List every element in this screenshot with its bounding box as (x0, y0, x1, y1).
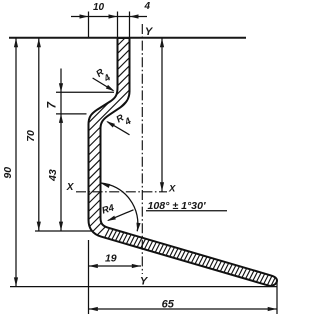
svg-text:X: X (66, 182, 75, 193)
R4 jog leader (107, 122, 129, 135)
ext line x=117.5 (117, 12, 119, 38)
svg-text:108° ± 1°30′: 108° ± 1°30′ (148, 201, 207, 212)
label R4 jog (114, 112, 133, 128)
profile cross-section outline (89, 38, 278, 286)
dim line 43 and 7 (60, 69, 62, 231)
dim 90 (15, 38, 17, 287)
top surface line (9, 37, 246, 39)
7 lower tick line (56, 113, 87, 115)
svg-text:90: 90 (2, 167, 14, 179)
svg-text:19: 19 (105, 252, 117, 264)
7 upper tick line (56, 91, 114, 93)
ext line x=129.5 (129, 12, 131, 38)
svg-text:10: 10 (93, 2, 105, 13)
R4 bend leader (108, 210, 133, 221)
angle arc 108deg (101, 183, 138, 231)
dim 65 (89, 308, 278, 310)
R4 upper leader (93, 78, 114, 91)
section hatching (89, 38, 276, 286)
label R4 upper (94, 67, 113, 85)
angle text underline (146, 210, 227, 212)
dim 70 (38, 38, 40, 231)
dim 19 (89, 265, 142, 267)
X axis centerline (76, 191, 167, 193)
svg-text:65: 65 (162, 298, 175, 310)
ext line bend y=227 (35, 230, 92, 232)
dim line top-to-X-axis (161, 38, 163, 192)
ext line x=88.5 bottom (88, 240, 90, 314)
Y axis centerline (141, 24, 143, 274)
svg-text:4: 4 (144, 1, 151, 12)
ext line x=88.5 (88, 12, 90, 38)
dim line 10 and 4 (71, 16, 147, 18)
arrows dim 10/4 (80, 14, 139, 18)
svg-text:X: X (168, 183, 176, 194)
ext line x=277 (276, 282, 278, 314)
svg-text:70: 70 (25, 130, 37, 142)
bottom surface ext line (10, 286, 277, 288)
svg-text:43: 43 (47, 169, 59, 182)
